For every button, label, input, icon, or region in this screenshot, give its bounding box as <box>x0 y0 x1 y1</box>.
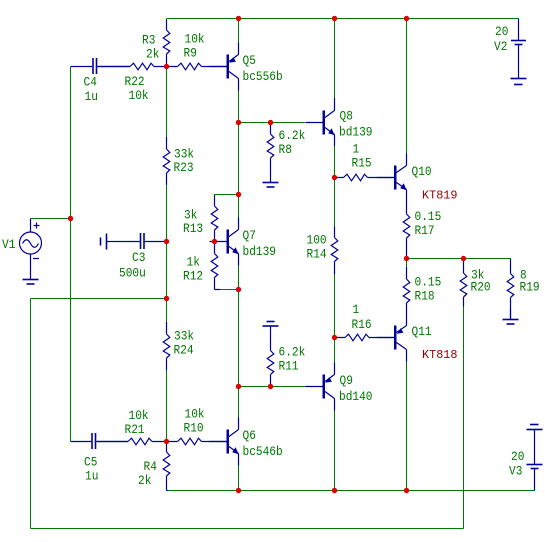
resistor R3 <box>163 19 170 67</box>
wire feedback bottom rail <box>31 528 464 530</box>
lead Q6 emitter <box>238 454 240 466</box>
svg-text:KT818: KT818 <box>422 348 458 362</box>
svg-text:R14: R14 <box>307 248 327 262</box>
ground below V1 <box>30 268 32 280</box>
svg-text:R8: R8 <box>279 143 292 157</box>
lead Q6 collector <box>238 418 240 430</box>
battery V3 <box>527 425 543 491</box>
lead Q9 collector <box>334 399 336 411</box>
node output / R20 top <box>461 256 466 261</box>
node output R17/R18 <box>404 256 409 261</box>
wire Q8 collector to top rail <box>334 19 336 99</box>
wire bottom ground rail <box>168 490 535 492</box>
lead Q10 collector <box>406 154 408 166</box>
resistor R9 <box>167 63 228 70</box>
lead Q8 collector <box>334 98 336 111</box>
resistor R24 <box>163 322 170 370</box>
node C3 / R23 rail <box>164 239 169 244</box>
svg-text:R16: R16 <box>352 318 372 332</box>
svg-text:1: 1 <box>353 143 360 157</box>
svg-text:Q11: Q11 <box>412 325 432 339</box>
svg-text:C3: C3 <box>132 251 145 265</box>
wire feedback left vertical <box>30 299 32 529</box>
svg-text:R20: R20 <box>471 281 491 295</box>
resistor R17 <box>403 190 410 259</box>
svg-text:bc546b: bc546b <box>243 445 283 459</box>
svg-text:R11: R11 <box>279 360 299 374</box>
wire R11 node to Q9 base <box>271 386 307 388</box>
svg-text:20: 20 <box>511 450 524 464</box>
resistor R8 <box>267 123 274 171</box>
wire Q5 collector row to Q8 base <box>239 122 306 124</box>
svg-text:1: 1 <box>353 303 360 317</box>
resistor R18 <box>403 267 410 326</box>
resistor R12 <box>211 242 218 290</box>
svg-text:10k: 10k <box>185 33 205 47</box>
svg-text:bd139: bd139 <box>339 126 373 140</box>
wire output row <box>407 258 511 260</box>
wire feedback row left <box>31 298 167 300</box>
capacitor C5 <box>71 441 129 443</box>
capacitor C4 <box>71 66 131 68</box>
wire R12 bottom to node <box>220 289 239 291</box>
svg-text:2k: 2k <box>146 48 159 62</box>
svg-text:bd140: bd140 <box>339 390 373 404</box>
resistor R4 <box>163 442 170 491</box>
node R21/R10/R4 <box>164 439 169 444</box>
svg-text:KT819: KT819 <box>422 189 458 203</box>
wire Q6 collector row to R11 node <box>239 386 271 388</box>
lead Q7 collector <box>238 218 240 230</box>
lead R12 bottom corner <box>215 289 221 291</box>
svg-text:R10: R10 <box>184 422 204 436</box>
ground above R11 <box>270 326 272 338</box>
node R8 top <box>268 120 273 125</box>
wire Q5 emitter to top rail <box>238 19 240 43</box>
svg-text:R19: R19 <box>520 281 540 295</box>
transistor Q6 <box>227 430 230 454</box>
wire Q5 collector down <box>238 91 240 123</box>
svg-text:33k: 33k <box>174 330 194 344</box>
resistor R15 <box>335 174 396 181</box>
lead Q5 collector <box>238 79 240 91</box>
wire R15 node to R14 top <box>334 178 336 227</box>
svg-text:R22: R22 <box>125 75 145 89</box>
wire x238 node column <box>238 123 240 195</box>
lead Q7 emitter <box>238 254 240 266</box>
resistor R13 <box>211 195 218 242</box>
wire R16 node to Q9 emitter <box>334 338 336 363</box>
node Q5 collector row <box>236 120 241 125</box>
source V1 <box>20 219 42 268</box>
wire Q6 emitter to bottom rail <box>238 466 240 491</box>
svg-text:bc556b: bc556b <box>243 70 283 84</box>
battery V2 <box>511 19 527 85</box>
node bottom rail / Q9 collector <box>332 488 337 493</box>
svg-text:0.15: 0.15 <box>415 276 442 290</box>
svg-text:R23: R23 <box>174 161 194 175</box>
lead Q11 collector <box>406 350 408 362</box>
wire Q7 emitter down <box>238 266 240 290</box>
node R3/R22/R9 <box>164 64 169 69</box>
transistor Q11 <box>394 326 397 350</box>
resistor R19 <box>507 259 514 320</box>
resistor R11 <box>267 338 274 387</box>
resistor R14 <box>331 226 338 274</box>
wire R18 top gap <box>406 259 408 268</box>
node R11 bottom / Q9 base <box>268 384 273 389</box>
svg-text:Q10: Q10 <box>412 165 432 179</box>
svg-text:100: 100 <box>307 234 327 248</box>
wire left input vertical <box>70 67 72 442</box>
svg-text:V3: V3 <box>509 465 522 479</box>
node top rail / Q5 emitter <box>236 16 241 21</box>
svg-text:R12: R12 <box>183 270 203 284</box>
node bottom rail / Q6 emitter <box>236 488 241 493</box>
resistor R21 <box>97 438 167 445</box>
svg-text:C5: C5 <box>84 456 97 470</box>
transistor Q9 <box>323 375 326 399</box>
resistor R16 <box>335 334 396 341</box>
transistor Q8 <box>323 111 326 135</box>
svg-text:R21: R21 <box>125 423 145 437</box>
svg-text:bd139: bd139 <box>243 245 277 259</box>
wire R24 to bottom input node <box>166 370 168 442</box>
capacitor C3 <box>119 241 167 243</box>
svg-text:6.2k: 6.2k <box>279 346 306 360</box>
ground left of C3 <box>107 241 119 243</box>
svg-text:R17: R17 <box>415 224 435 238</box>
svg-text:R13: R13 <box>183 222 203 236</box>
node Q6 collector column <box>236 384 241 389</box>
svg-text:Q7: Q7 <box>243 229 256 243</box>
wire R14 bottom to R16 node <box>334 274 336 337</box>
ground below R19 <box>510 310 512 320</box>
svg-text:0.15: 0.15 <box>415 210 442 224</box>
resistor R23 <box>163 137 170 185</box>
svg-text:33k: 33k <box>174 148 194 162</box>
svg-text:V1: V1 <box>2 238 15 252</box>
svg-text:20: 20 <box>495 25 508 39</box>
svg-text:10k: 10k <box>185 408 205 422</box>
wire R3 node to R23 <box>166 67 168 138</box>
wire Q10 collector to top rail <box>406 19 408 154</box>
wire top supply rail <box>167 18 519 20</box>
svg-text:3k: 3k <box>184 208 197 222</box>
svg-text:500u: 500u <box>119 267 146 281</box>
svg-text:2k: 2k <box>138 474 151 488</box>
svg-text:Q6: Q6 <box>243 429 256 443</box>
svg-text:C4: C4 <box>84 76 97 90</box>
svg-text:1u: 1u <box>85 470 98 484</box>
node R13/R12 Q7 base <box>212 239 217 244</box>
svg-text:10k: 10k <box>129 409 149 423</box>
wire Q6 collector up <box>238 387 240 418</box>
transistor Q7 <box>227 230 230 254</box>
wire feedback node to R24 <box>166 299 168 323</box>
resistor R10 <box>167 438 228 445</box>
wire Q9 collector to bottom rail <box>334 411 336 491</box>
lead Q9 emitter <box>334 363 336 375</box>
svg-text:R24: R24 <box>174 344 194 358</box>
transistor Q10 <box>394 166 397 190</box>
node R12 / Q7 emitter <box>236 287 241 292</box>
wire Q11 collector to bottom rail <box>406 362 408 491</box>
svg-text:R15: R15 <box>352 157 372 171</box>
resistor R20 <box>460 259 467 307</box>
node R13 / Q7 collector <box>236 192 241 197</box>
svg-text:V2: V2 <box>494 40 507 54</box>
wire R20 bottom to bottom feedback rail <box>463 307 465 529</box>
wire x238 long down segment <box>238 290 240 387</box>
node Q8 emitter / R15 / R14 <box>332 175 337 180</box>
node V1 / input column <box>68 216 73 221</box>
transistor Q5 <box>227 55 230 79</box>
node top rail / Q8 collector <box>332 16 337 21</box>
svg-text:R3: R3 <box>142 34 155 48</box>
lead Q8 emitter <box>334 135 336 147</box>
node feedback / R23-R24 <box>164 296 169 301</box>
svg-text:1u: 1u <box>85 90 98 104</box>
wire V1 to input node <box>31 218 71 220</box>
wire C3 node to feedback node <box>166 242 168 299</box>
svg-text:Q5: Q5 <box>243 54 256 68</box>
svg-text:R18: R18 <box>415 290 435 304</box>
wire R23 to C3 node <box>166 185 168 242</box>
lead Q5 emitter <box>238 43 240 55</box>
svg-text:Q8: Q8 <box>340 110 353 124</box>
svg-text:1k: 1k <box>187 256 200 270</box>
svg-text:6.2k: 6.2k <box>279 129 306 143</box>
wire Q8 emitter to R15 node <box>334 146 336 178</box>
svg-text:R9: R9 <box>184 47 197 61</box>
resistor R22 <box>98 63 167 70</box>
node bottom rail / Q11 collector <box>404 488 409 493</box>
wire R13 top to node <box>215 194 239 196</box>
node top rail / Q10 collector <box>404 16 409 21</box>
svg-text:R4: R4 <box>144 460 157 474</box>
svg-text:10k: 10k <box>129 89 149 103</box>
ground below R8 <box>270 171 272 183</box>
wire Q7 collector up <box>238 195 240 218</box>
node R14 / R16 / Q9 emitter <box>332 335 337 340</box>
lead R4 bottom corner <box>167 490 169 492</box>
svg-text:Q9: Q9 <box>340 374 353 388</box>
